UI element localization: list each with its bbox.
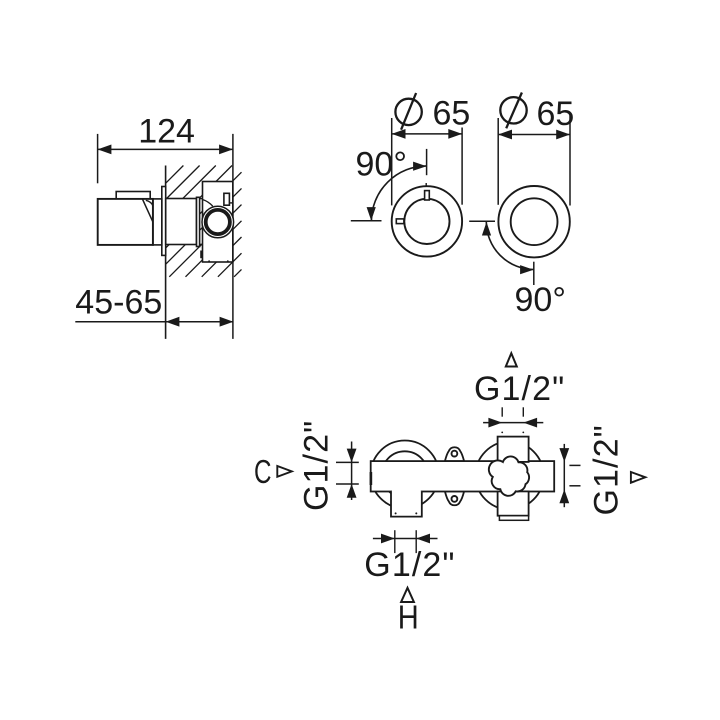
left diameter symbol: [395, 93, 421, 130]
bottom ear hole: [452, 496, 458, 502]
stub line: [229, 202, 232, 204]
bottom flow triangle: [401, 588, 414, 602]
bottom ext dashes: [395, 530, 416, 553]
body fillet curve: [203, 200, 213, 207]
left body inner circle: [382, 451, 428, 497]
right body circle: [476, 442, 544, 510]
handle chamfer arc: [146, 200, 153, 206]
port bore tick at bar left end: [370, 472, 373, 485]
dimension 124 line: [98, 134, 233, 339]
C flow triangle: [277, 466, 292, 477]
in-wall valve body: [203, 182, 233, 263]
top G1/2 dimension: [483, 422, 543, 424]
bottom mounting ear: [445, 491, 464, 505]
left dia dimension: [392, 118, 462, 205]
svg-text:G1/2": G1/2": [364, 546, 455, 584]
right trim outer circle: [498, 186, 569, 257]
bottom outlet pipe: [498, 491, 529, 515]
right 90deg ticks: [469, 220, 495, 222]
body bottom dots: [208, 260, 210, 262]
right port dimension: [564, 444, 580, 507]
escutcheon plate: [162, 187, 166, 256]
sleeve-to-body connectors: [200, 198, 203, 200]
left foot port: [392, 489, 421, 516]
top mounting ear: [445, 447, 464, 461]
svg-text:65: 65: [433, 95, 471, 133]
svg-text:G1/2": G1/2": [474, 370, 565, 408]
top ear hole: [452, 451, 458, 457]
sleeve flange: [197, 197, 200, 246]
left 90deg ticks: [426, 149, 428, 175]
left trim left notch: [396, 219, 404, 224]
handle chamfer diagonal: [143, 199, 153, 222]
left body circle: [371, 441, 439, 509]
cartridge stub: [224, 193, 230, 205]
foot corner dots: [395, 512, 397, 514]
right flow triangle: [631, 472, 646, 483]
svg-text:G1/2": G1/2": [298, 420, 336, 511]
left trim inner circle: [404, 199, 449, 244]
bottom pipe flange: [499, 516, 528, 521]
right dia dimension: [498, 114, 570, 206]
bottom G1/2 dimension: [373, 538, 438, 540]
valve sleeve through wall: [166, 199, 197, 245]
dimension 45-65 line: [75, 321, 233, 323]
body lower-left tick: [200, 251, 202, 259]
left trim top notch: [425, 191, 430, 200]
pipe connection outer circle: [202, 206, 234, 238]
wall face line: [165, 166, 167, 339]
left trim top tick: [425, 183, 427, 187]
left port dimension: [336, 442, 359, 501]
right 90deg arc: [486, 222, 534, 270]
svg-text:90°: 90°: [356, 146, 407, 184]
pipe connection ring: [206, 210, 230, 234]
right diameter symbol: [500, 93, 526, 129]
break blob: [489, 456, 529, 495]
svg-text:C: C: [254, 453, 272, 490]
svg-text:65: 65: [537, 95, 575, 133]
svg-text:90°: 90°: [515, 281, 566, 319]
wall hatching: [166, 166, 242, 277]
top inlet pipe: [498, 437, 529, 462]
svg-text:H: H: [398, 599, 419, 636]
top pipe ext dashes: [502, 407, 523, 416]
svg-text:124: 124: [138, 113, 195, 151]
left trim outer circle: [392, 186, 462, 256]
svg-text:45-65: 45-65: [75, 284, 162, 322]
handle body: [98, 199, 153, 245]
top flow triangle: [506, 353, 517, 366]
svg-text:G1/2": G1/2": [588, 424, 626, 515]
right trim inner circle: [511, 198, 558, 245]
handle neck: [153, 199, 162, 245]
main horizontal body bar: [371, 461, 555, 491]
handle lever tab: [116, 192, 150, 199]
left 90deg arc: [371, 166, 427, 222]
